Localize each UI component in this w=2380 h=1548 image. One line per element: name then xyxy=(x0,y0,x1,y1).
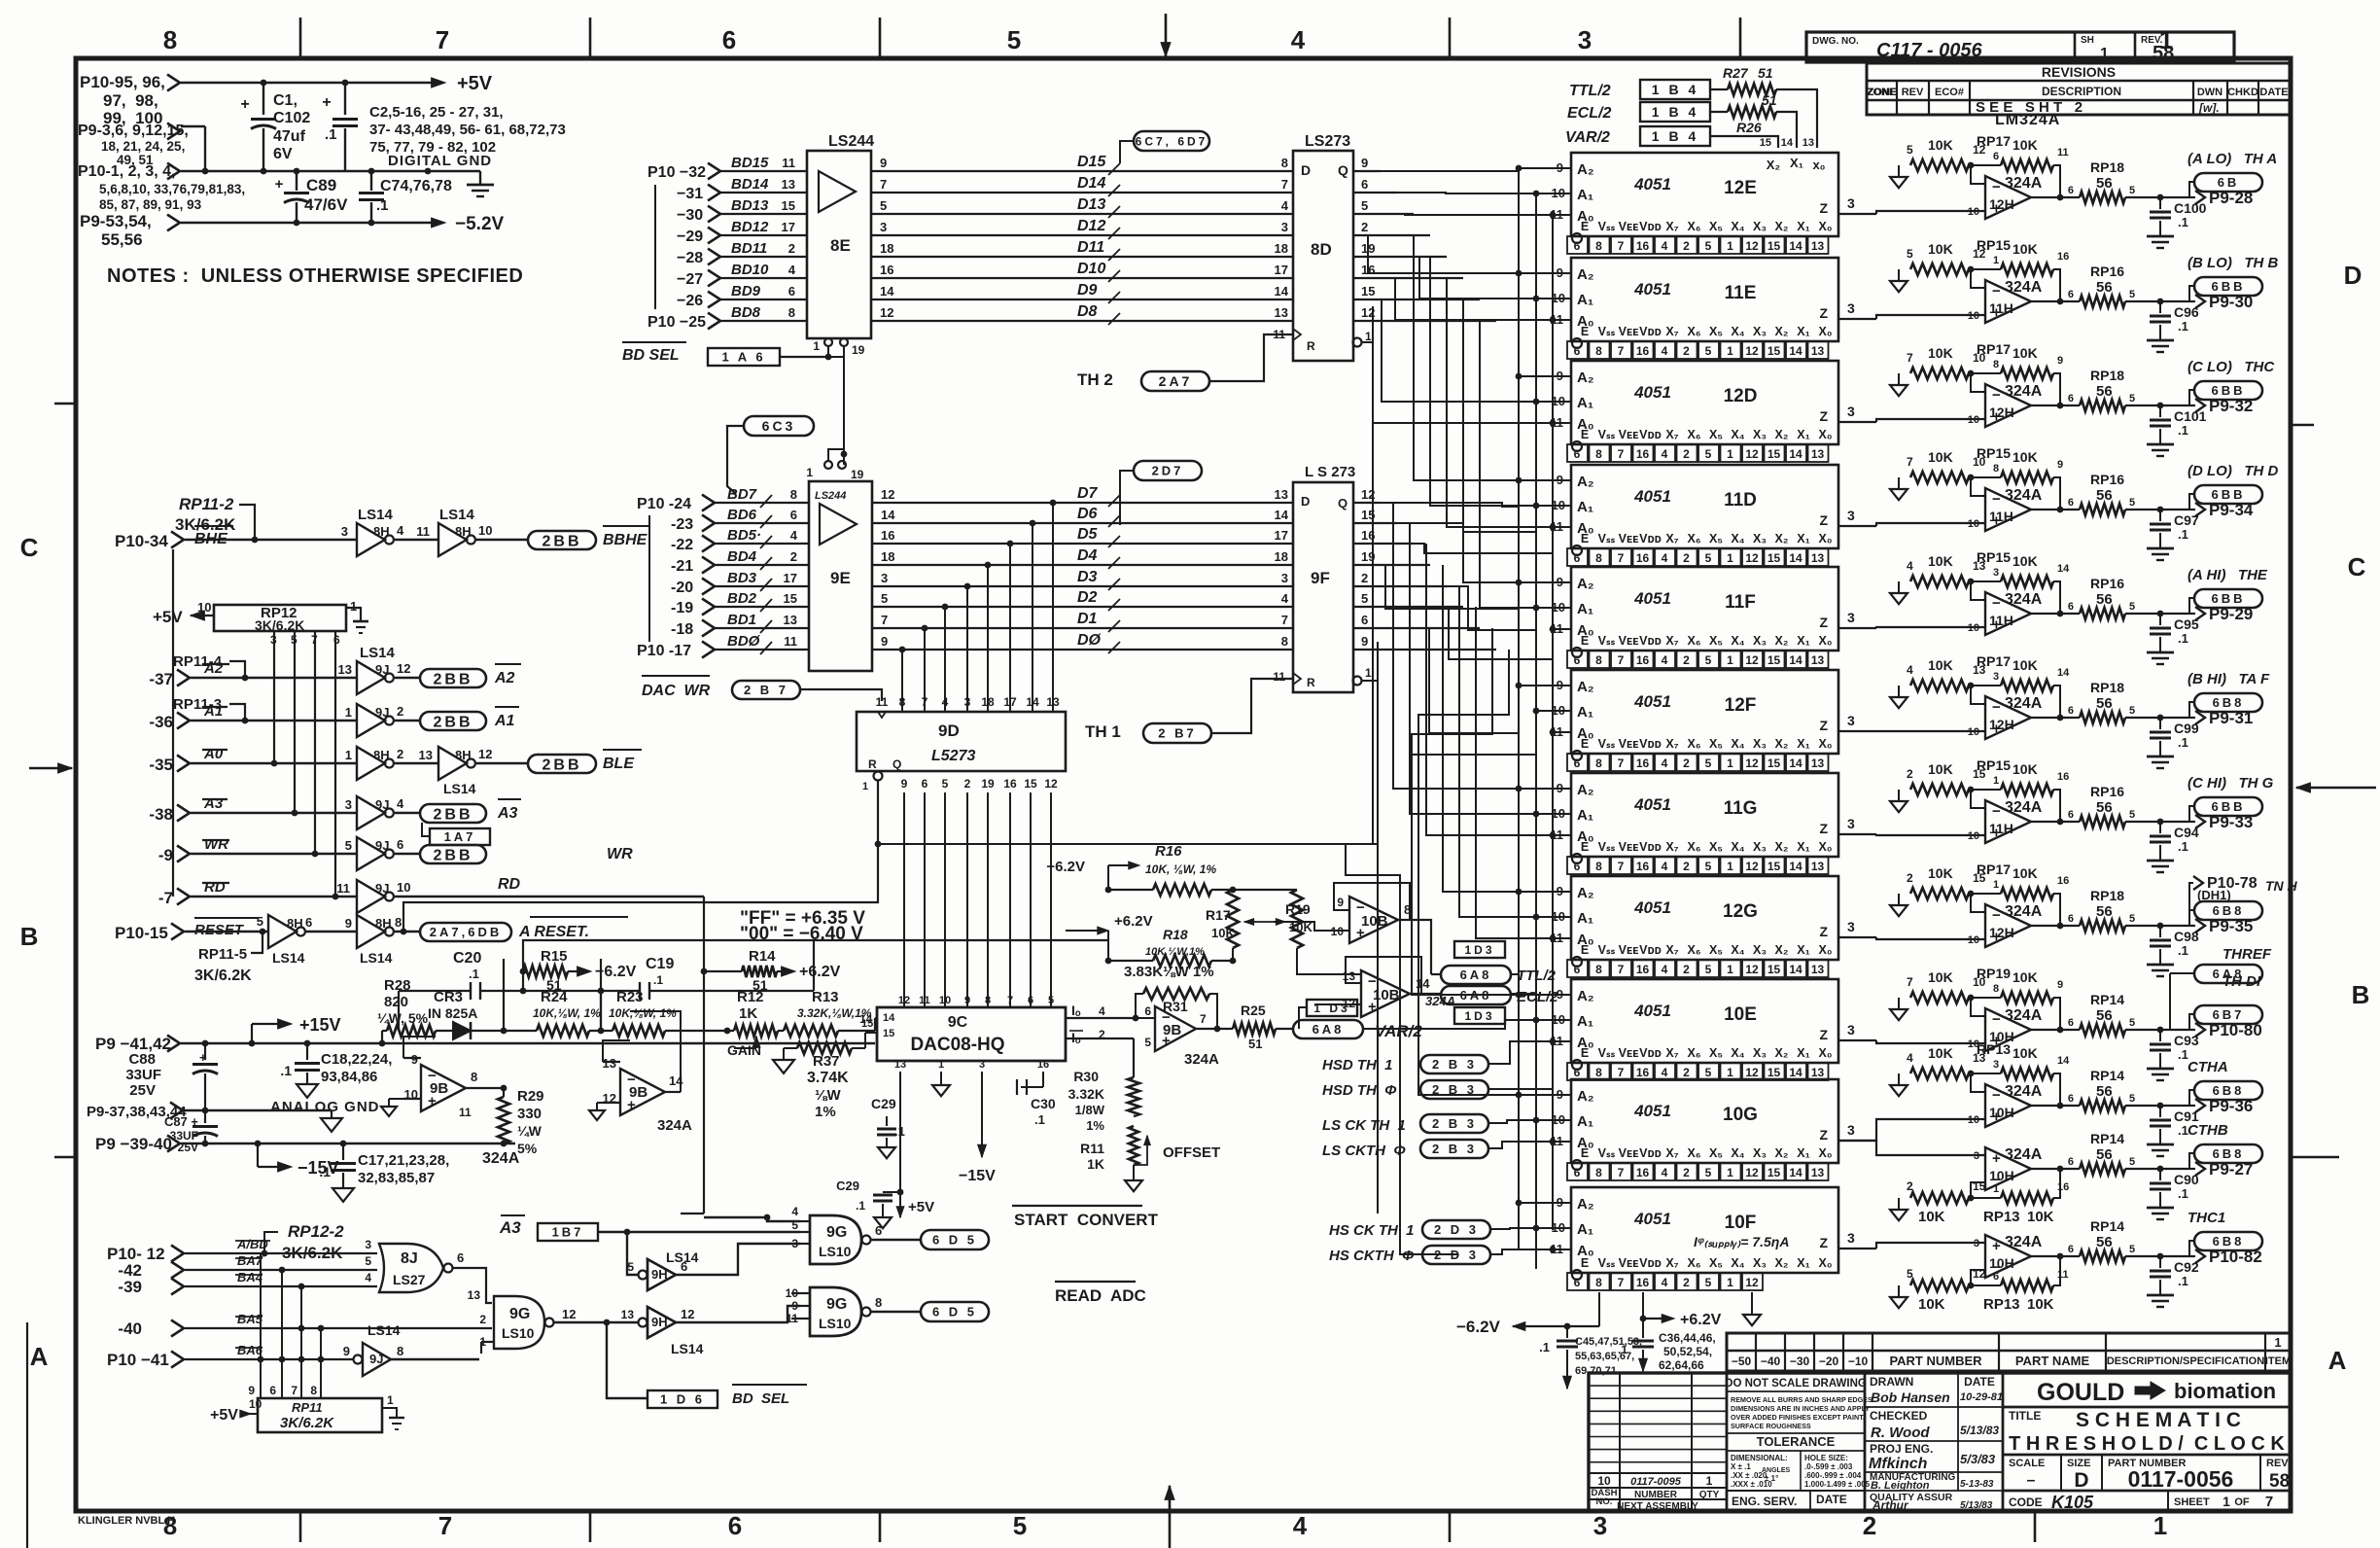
label Iq supply note xyxy=(1694,1234,1789,1249)
svg-text:.0-.599 ± .003: .0-.599 ± .003 xyxy=(1804,1462,1853,1471)
capacitor C87 33UF 25V xyxy=(164,1110,218,1154)
diode CR3 IN825A xyxy=(428,989,504,1039)
svg-text:X₄: X₄ xyxy=(1731,1046,1744,1060)
svg-text:[w].: [w]. xyxy=(2198,101,2220,115)
svg-text:9: 9 xyxy=(791,1299,798,1313)
svg-text:4: 4 xyxy=(1662,1066,1668,1079)
svg-text:−10: −10 xyxy=(1848,1354,1869,1368)
svg-text:P10-80: P10-80 xyxy=(2209,1021,2262,1039)
svg-text:A: A xyxy=(2328,1346,2347,1375)
capsule 6BB P9-34 xyxy=(2160,485,2262,519)
svg-text:3: 3 xyxy=(979,1059,985,1071)
wire RP12 pin3 drop xyxy=(271,631,278,766)
svg-text:1: 1 xyxy=(2153,1511,2167,1540)
svg-text:C74,76,78: C74,76,78 xyxy=(380,178,452,194)
svg-text:3.74K: 3.74K xyxy=(807,1070,849,1086)
svg-text:5/13/83: 5/13/83 xyxy=(1960,1500,1993,1511)
svg-text:HS CK TH 1: HS CK TH 1 xyxy=(1329,1222,1415,1239)
svg-text:NUMBER: NUMBER xyxy=(1634,1490,1678,1500)
svg-text:7: 7 xyxy=(436,25,449,54)
svg-text:10K: 10K xyxy=(1918,1209,1945,1225)
wires 9E outputs down to 9D xyxy=(899,500,1057,712)
wire +5V rail xyxy=(181,78,445,88)
svg-text:X₃: X₃ xyxy=(1753,1256,1767,1270)
svg-text:8E: 8E xyxy=(830,236,851,255)
svg-text:X₆: X₆ xyxy=(1687,325,1700,338)
svg-text:REVISIONS: REVISIONS xyxy=(2042,64,2116,80)
svg-text:X₃: X₃ xyxy=(1753,1046,1767,1060)
svg-text:6BB: 6BB xyxy=(2211,799,2245,814)
svg-text:X₅: X₅ xyxy=(1709,325,1723,338)
ground symbol digital gnd xyxy=(467,171,494,196)
pin row below 10G xyxy=(1567,1160,1829,1180)
Z output pin 3 of 11F xyxy=(1847,610,1855,625)
svg-text:3: 3 xyxy=(880,220,887,234)
svg-text:9H: 9H xyxy=(651,1315,668,1329)
svg-text:A₂: A₂ xyxy=(1577,1196,1594,1213)
pins 15 14 13 into 12E xyxy=(1760,137,1814,149)
svg-text:X₆: X₆ xyxy=(1687,737,1700,751)
op-amp 324A 11H for P9-34 xyxy=(1985,487,2043,531)
svg-text:12: 12 xyxy=(1745,756,1759,770)
svg-text:4: 4 xyxy=(1662,1166,1668,1179)
svg-text:1: 1 xyxy=(1727,1066,1733,1079)
svg-text:C97: C97 xyxy=(2174,512,2199,528)
svg-text:6: 6 xyxy=(2068,809,2074,821)
resistor RP18 56 output P9-32 xyxy=(2031,368,2163,411)
connector P10-95..100 +5V input xyxy=(80,73,180,127)
svg-text:A₂: A₂ xyxy=(1577,679,1594,695)
svg-text:(B HI) TA F: (B HI) TA F xyxy=(2187,671,2270,687)
svg-text:−27: −27 xyxy=(677,271,703,288)
svg-text:Z: Z xyxy=(1819,512,1828,528)
svg-text:RP14: RP14 xyxy=(2090,992,2124,1007)
svg-text:16: 16 xyxy=(1636,344,1650,358)
svg-text:2: 2 xyxy=(1361,571,1368,585)
svg-text:16: 16 xyxy=(1636,860,1650,873)
svg-text:P10-34: P10-34 xyxy=(115,532,168,550)
capsule 6B7 P10-80 xyxy=(2160,1005,2262,1039)
wire 9G to 6D5 start convert xyxy=(871,1239,921,1241)
svg-text:11: 11 xyxy=(2057,1269,2069,1281)
svg-text:-9: -9 xyxy=(158,846,173,864)
svg-text:THREF: THREF xyxy=(2222,946,2272,963)
svg-text:13: 13 xyxy=(1811,860,1825,873)
svg-text:A₂: A₂ xyxy=(1577,782,1594,798)
svg-text:1: 1 xyxy=(345,748,352,762)
wire RESET to inverter xyxy=(185,929,268,935)
svg-text:3: 3 xyxy=(1593,1511,1607,1540)
x2 x1 x0 pins of 12E xyxy=(1767,156,1826,172)
svg-text:6: 6 xyxy=(269,1384,276,1397)
svg-text:LS14: LS14 xyxy=(360,645,396,661)
svg-text:X₅: X₅ xyxy=(1709,943,1723,957)
svg-text:X₃: X₃ xyxy=(1753,943,1767,957)
svg-text:D12: D12 xyxy=(1077,218,1105,234)
svg-text:Vᴅᴅ: Vᴅᴅ xyxy=(1639,1046,1662,1060)
svg-text:ECL/2: ECL/2 xyxy=(1567,105,1611,122)
svg-text:7: 7 xyxy=(1200,1012,1207,1026)
svg-text:Mfkinch: Mfkinch xyxy=(1869,1456,1928,1472)
svg-text:X₇: X₇ xyxy=(1665,220,1678,233)
svg-text:11: 11 xyxy=(416,524,430,539)
resistor RP18 56 output P9-28 xyxy=(2031,159,2163,203)
svg-text:Iₒ: Iₒ xyxy=(1071,1003,1081,1018)
svg-text:1: 1 xyxy=(1993,255,1999,266)
svg-text:X₅: X₅ xyxy=(1709,428,1723,441)
resistor RP14 56 output P9-27 xyxy=(2031,1131,2163,1175)
svg-text:14: 14 xyxy=(1789,1166,1802,1179)
capsule 6B P9-28 xyxy=(2160,173,2262,207)
inverter 9J LS14 BA6 xyxy=(343,1322,403,1376)
wire A1 to capsule xyxy=(395,720,420,721)
svg-text:RP14: RP14 xyxy=(2090,1218,2124,1234)
svg-text:4: 4 xyxy=(790,528,798,543)
svg-text:A2: A2 xyxy=(494,670,515,686)
svg-text:C20: C20 xyxy=(453,950,481,967)
svg-text:324A: 324A xyxy=(2005,279,2043,296)
svg-text:5: 5 xyxy=(2129,1017,2135,1029)
mux U12E 4051 xyxy=(1571,153,1838,236)
capsule 6BB P9-33 xyxy=(2160,797,2262,831)
svg-text:X₆: X₆ xyxy=(1687,428,1700,441)
svg-text:TITLE: TITLE xyxy=(2009,1409,2041,1423)
svg-text:D2: D2 xyxy=(1077,589,1098,606)
svg-text:BA6: BA6 xyxy=(237,1343,263,1357)
svg-text:324A: 324A xyxy=(2005,383,2043,400)
svg-text:Vₛₛ: Vₛₛ xyxy=(1598,840,1616,854)
buffer U8E LS244 xyxy=(807,133,874,338)
svg-text:3: 3 xyxy=(345,797,352,812)
svg-text:4: 4 xyxy=(1662,344,1668,358)
svg-text:IN 825A: IN 825A xyxy=(428,1005,477,1021)
svg-text:4: 4 xyxy=(1662,653,1668,667)
mux U10E 4051 xyxy=(1571,979,1838,1063)
op-amp row P9-31 input resistors RP17 xyxy=(1890,653,2070,721)
svg-text:Q: Q xyxy=(892,757,901,771)
svg-text:X₆: X₆ xyxy=(1687,840,1700,854)
label TH1 and capsule 2B7 xyxy=(1085,679,1293,743)
svg-text:14: 14 xyxy=(1789,756,1802,770)
svg-text:15: 15 xyxy=(883,1028,894,1039)
svg-text:E: E xyxy=(1581,428,1589,441)
svg-text:15: 15 xyxy=(1361,284,1375,299)
svg-text:-23: -23 xyxy=(671,516,693,533)
svg-text:D15: D15 xyxy=(1077,154,1106,170)
svg-text:4: 4 xyxy=(1099,1004,1105,1018)
svg-text:A RESET.: A RESET. xyxy=(518,924,589,940)
svg-text:9: 9 xyxy=(964,995,970,1006)
svg-text:D3: D3 xyxy=(1077,569,1098,585)
label (D LO) TH D xyxy=(2187,463,2278,479)
svg-text:RP16: RP16 xyxy=(2090,264,2124,279)
svg-text:3: 3 xyxy=(1847,300,1855,316)
svg-text:6: 6 xyxy=(790,508,797,522)
svg-text:Vₛₛ: Vₛₛ xyxy=(1598,428,1616,441)
svg-text:DESCRIPTION/SPECIFICATION: DESCRIPTION/SPECIFICATION xyxy=(2107,1355,2264,1367)
svg-text:BD15: BD15 xyxy=(731,155,769,171)
svg-text:TTL/2: TTL/2 xyxy=(1569,83,1611,99)
svg-text:A₂: A₂ xyxy=(1577,576,1594,592)
svg-text:Vᴇᴇ: Vᴇᴇ xyxy=(1619,943,1639,957)
svg-text:(D LO) TH D: (D LO) TH D xyxy=(2187,463,2278,479)
svg-text:4: 4 xyxy=(1662,239,1668,253)
svg-text:8D: 8D xyxy=(1311,240,1332,259)
svg-text:K105: K105 xyxy=(2051,1493,2094,1512)
op-amp 324A 12H for P9-28 xyxy=(1985,175,2043,219)
svg-text:13: 13 xyxy=(419,748,433,762)
svg-text:15: 15 xyxy=(1767,551,1781,565)
svg-text:X₂: X₂ xyxy=(1775,532,1789,545)
svg-text:1D3: 1D3 xyxy=(1464,943,1494,957)
svg-text:5: 5 xyxy=(2129,185,2135,196)
svg-text:6A8: 6A8 xyxy=(1460,967,1492,982)
svg-text:6: 6 xyxy=(1361,613,1368,627)
svg-text:7: 7 xyxy=(1618,551,1625,565)
svg-text:8: 8 xyxy=(1595,239,1602,253)
svg-text:A₂: A₂ xyxy=(1577,161,1594,178)
capsule LS CK TH 1 2B3 xyxy=(1322,1114,1488,1134)
svg-text:8: 8 xyxy=(1595,1166,1602,1179)
svg-text:"00" = −6.40 V: "00" = −6.40 V xyxy=(740,924,863,944)
svg-text:12: 12 xyxy=(1745,447,1759,461)
pin row below 11G xyxy=(1567,854,1829,874)
svg-text:−: − xyxy=(1992,179,2001,195)
capsule 6C3 tag xyxy=(727,416,814,503)
svg-text:C87 +: C87 + xyxy=(164,1114,198,1129)
svg-text:LS244: LS244 xyxy=(815,490,846,502)
svg-text:5: 5 xyxy=(880,198,887,213)
svg-text:1: 1 xyxy=(2222,1494,2230,1509)
svg-text:4: 4 xyxy=(1662,551,1668,565)
svg-text:14: 14 xyxy=(1781,137,1794,149)
latch U9D LS273 horizontal xyxy=(857,712,1066,771)
capacitor C94 .1 xyxy=(2147,822,2199,872)
svg-text:Z: Z xyxy=(1819,718,1828,733)
svg-text:LS14: LS14 xyxy=(358,507,394,523)
svg-text:X₃: X₃ xyxy=(1753,220,1767,233)
svg-text:324A: 324A xyxy=(2005,175,2043,192)
svg-text:2A7,6DB: 2A7,6DB xyxy=(430,925,502,939)
wire BA5 to 9G xyxy=(185,1312,492,1331)
svg-text:7: 7 xyxy=(1618,756,1625,770)
resistor RP18 56 output P9-31 xyxy=(2031,680,2163,723)
svg-text:A₂: A₂ xyxy=(1577,266,1594,283)
svg-text:8: 8 xyxy=(790,487,797,502)
svg-text:4051: 4051 xyxy=(1633,898,1671,917)
svg-text:KLINGLER NVBL H: KLINGLER NVBL H xyxy=(78,1515,175,1527)
svg-text:8: 8 xyxy=(1993,463,1999,475)
svg-text:33UF: 33UF xyxy=(125,1067,161,1083)
svg-text:9J: 9J xyxy=(375,881,389,896)
refbox 1D3 var xyxy=(1299,1000,1357,1029)
wire +15V rail xyxy=(181,1040,875,1047)
svg-text:10: 10 xyxy=(397,880,410,895)
svg-text:12H: 12H xyxy=(1989,925,2014,940)
wire capsule ECL/2 to bus xyxy=(1511,993,1536,995)
svg-text:CHKD: CHKD xyxy=(2227,87,2258,98)
wire 9J out to 9G pin xyxy=(391,1358,479,1360)
svg-text:E: E xyxy=(1581,737,1589,751)
dac +5V C29 decoupling xyxy=(836,1072,934,1228)
svg-text:8: 8 xyxy=(1993,983,1999,995)
svg-text:14: 14 xyxy=(1275,508,1289,522)
enable pins 1,19 of 8E xyxy=(813,338,864,428)
svg-text:RP14: RP14 xyxy=(2090,1131,2124,1146)
svg-text:4051: 4051 xyxy=(1633,175,1671,193)
svg-text:6A8: 6A8 xyxy=(1312,1022,1345,1037)
svg-text:HSD TH Φ: HSD TH Φ xyxy=(1322,1082,1397,1099)
svg-text:1: 1 xyxy=(1993,879,1999,891)
svg-text:6B7: 6B7 xyxy=(2213,1007,2245,1022)
bus wires into 9E xyxy=(702,486,809,658)
connector P9-39,40 xyxy=(95,1135,180,1153)
svg-text:DATE: DATE xyxy=(1964,1375,1995,1389)
refbox BD SEL 1A6 xyxy=(622,342,828,366)
svg-text:OVER ADDED FINISHES EXCEPT PAI: OVER ADDED FINISHES EXCEPT PAINT. xyxy=(1731,1413,1865,1422)
svg-text:7: 7 xyxy=(1618,344,1625,358)
pin row below 10F xyxy=(1567,1270,1763,1290)
op-amp row P9-29 input resistors RP15 xyxy=(1890,549,2070,616)
capsule 2BB A2 xyxy=(420,664,521,687)
svg-text:LS10: LS10 xyxy=(819,1316,852,1331)
dac U9C DAC08-HQ xyxy=(877,1007,1066,1061)
svg-text:X₆: X₆ xyxy=(1687,1146,1700,1160)
svg-text:A1: A1 xyxy=(203,703,223,720)
svg-text:REV: REV xyxy=(2266,1458,2289,1469)
Z output pin 3 of 10E xyxy=(1847,1022,1855,1038)
svg-text:LS14: LS14 xyxy=(360,950,393,966)
dac bottom pins xyxy=(894,1059,1049,1071)
mux U10G 4051 xyxy=(1571,1079,1838,1163)
svg-text:9E: 9E xyxy=(830,569,851,587)
svg-text:X₄: X₄ xyxy=(1731,943,1744,957)
capsule 6AB VAR/2 xyxy=(1293,1020,1422,1040)
capsule 2BB A3 xyxy=(420,799,521,823)
svg-text:C19: C19 xyxy=(646,956,674,972)
svg-text:−: − xyxy=(1992,1011,2001,1028)
svg-text:+6.2V: +6.2V xyxy=(799,964,841,980)
svg-text:9C: 9C xyxy=(948,1014,968,1031)
svg-text:58: 58 xyxy=(2152,43,2174,64)
pins A2 A1 A0 of 11F xyxy=(1516,575,1571,636)
svg-text:.1: .1 xyxy=(2178,423,2188,438)
svg-text:7: 7 xyxy=(1281,613,1288,627)
svg-text:13: 13 xyxy=(1811,1166,1825,1179)
wire dac opamp out xyxy=(1196,1026,1233,1033)
refbox 1D6 BD SEL xyxy=(647,1385,807,1408)
resistor R14 51 to +6.2V xyxy=(701,948,841,993)
svg-text:10K: 10K xyxy=(2012,345,2038,361)
svg-text:D8: D8 xyxy=(1077,303,1098,320)
svg-text:P10-95, 96,: P10-95, 96, xyxy=(80,73,165,91)
pin row below 12E xyxy=(1567,233,1829,254)
svg-text:10H: 10H xyxy=(1989,1168,2014,1183)
svg-text:DØ: DØ xyxy=(1077,632,1102,649)
svg-text:47uf: 47uf xyxy=(273,128,306,145)
connector P9-37,38,43,44 xyxy=(87,1103,187,1121)
svg-text:DATE: DATE xyxy=(2259,87,2288,98)
svg-text:3: 3 xyxy=(1847,1122,1855,1138)
svg-text:3: 3 xyxy=(881,571,888,585)
svg-text:10H: 10H xyxy=(1989,1255,2014,1271)
svg-text:X₀: X₀ xyxy=(1819,1256,1833,1270)
svg-text:R11: R11 xyxy=(1080,1141,1104,1156)
svg-text:6 D 5: 6 D 5 xyxy=(932,1305,977,1319)
op-amp 9B 324A second xyxy=(589,1011,692,1134)
svg-text:11: 11 xyxy=(919,995,930,1006)
svg-text:9: 9 xyxy=(2057,979,2063,991)
svg-text:8: 8 xyxy=(1595,447,1602,461)
svg-text:X₇: X₇ xyxy=(1665,532,1678,545)
svg-text:BD8: BD8 xyxy=(731,304,761,321)
svg-text:51: 51 xyxy=(752,977,768,993)
bus P10 connector labels 8E xyxy=(647,164,706,331)
svg-text:10K: 10K xyxy=(1928,241,1953,257)
svg-text:324A: 324A xyxy=(657,1117,692,1134)
resistor RP16 56 output P9-30 xyxy=(2031,264,2163,307)
svg-text:13: 13 xyxy=(1811,239,1825,253)
pin row below 12D xyxy=(1567,441,1829,462)
svg-text:3: 3 xyxy=(1847,919,1855,934)
svg-text:Z: Z xyxy=(1819,1235,1828,1250)
svg-text:8: 8 xyxy=(1595,653,1602,667)
svg-text:X₄: X₄ xyxy=(1731,1146,1744,1160)
svg-text:5: 5 xyxy=(1144,1036,1151,1049)
mux U12G 4051 xyxy=(1571,876,1838,960)
svg-text:5: 5 xyxy=(2129,601,2135,613)
svg-text:1: 1 xyxy=(2274,1335,2281,1350)
svg-text:15: 15 xyxy=(1767,239,1781,253)
clock pin 11 of 8D xyxy=(1273,328,1301,341)
resistor R25 51 xyxy=(1233,1003,1293,1051)
svg-text:5: 5 xyxy=(2129,393,2135,405)
connector P9-53..56 -5.2V input xyxy=(80,212,180,249)
svg-text:1D3: 1D3 xyxy=(1464,1009,1494,1023)
svg-text:A₁: A₁ xyxy=(1577,601,1593,617)
svg-text:X₁: X₁ xyxy=(1790,156,1803,170)
svg-text:A₁: A₁ xyxy=(1577,910,1593,927)
connector P10-35 A0 input xyxy=(149,756,190,775)
svg-text:93,84,86: 93,84,86 xyxy=(321,1069,377,1085)
svg-text:.1: .1 xyxy=(1539,1340,1550,1354)
svg-text:1 D 6: 1 D 6 xyxy=(660,1392,705,1407)
svg-text:85, 87, 89, 91, 93: 85, 87, 89, 91, 93 xyxy=(99,197,202,212)
svg-text:(A LO) TH A: (A LO) TH A xyxy=(2187,151,2277,167)
svg-text:1: 1 xyxy=(806,466,813,479)
svg-text:12: 12 xyxy=(681,1307,694,1321)
wire Z to op-amp P9-33 xyxy=(1838,830,1985,842)
wire A2 row xyxy=(191,660,357,681)
svg-text:4: 4 xyxy=(365,1271,371,1284)
svg-text:14: 14 xyxy=(880,284,894,299)
svg-text:C29: C29 xyxy=(836,1179,859,1193)
svg-text:4051: 4051 xyxy=(1633,795,1671,814)
svg-text:P10-82: P10-82 xyxy=(2209,1248,2262,1266)
svg-text:X₀: X₀ xyxy=(1819,1146,1833,1160)
svg-text:X₃: X₃ xyxy=(1753,428,1767,441)
svg-text:5: 5 xyxy=(2129,497,2135,509)
svg-text:6V: 6V xyxy=(273,146,293,162)
svg-text:6BB: 6BB xyxy=(2211,591,2245,606)
svg-text:LS27: LS27 xyxy=(393,1272,426,1287)
svg-text:DWN: DWN xyxy=(2197,87,2222,98)
svg-text:(B LO) TH B: (B LO) TH B xyxy=(2187,255,2278,271)
svg-text:19: 19 xyxy=(981,777,995,791)
svg-text:C102: C102 xyxy=(273,110,310,126)
svg-text:X₃: X₃ xyxy=(1753,1146,1767,1160)
svg-text:A0: A0 xyxy=(203,746,224,762)
